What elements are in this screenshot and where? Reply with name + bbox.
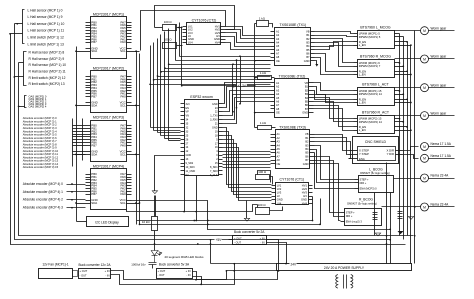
svg-text:Nema 23 4A: Nema 23 4A [431,203,450,207]
svg-text:B1: B1 [306,33,310,37]
svg-text:+ IN: + IN [260,237,265,241]
wire r100d right [270,207,283,211]
wire lbcog motor [394,178,421,180]
svg-text:ENA (mcp2) 3: ENA (mcp2) 3 [346,220,363,224]
svg-text:7_SD0: 7_SD0 [210,170,218,173]
wire r100c right [270,177,273,185]
junction [319,224,321,226]
wire 3v3 vertical [254,24,256,128]
wire buck5a out stub [229,239,233,241]
svg-text:20 segment RGB LED blocks: 20 segment RGB LED blocks [165,255,205,259]
wire coil drop L [374,193,376,236]
resistor 10 kohm [152,217,158,231]
connector fan-buck [73,271,78,277]
svg-text:- OUT: - OUT [80,273,87,277]
svg-text:6_CLK: 6_CLK [210,174,218,177]
wire r100c loop [258,171,271,183]
stepper controller CNC SHIELD [353,137,399,164]
motor M7 nema23 [421,174,429,182]
svg-text:A7: A7 [276,103,280,107]
svg-text:A1: A1 [277,132,281,136]
svg-text:PA0: PA0 [120,40,126,44]
svg-text:GND: GND [304,59,310,63]
wire right EN bus [399,34,401,236]
svg-text:PB7: PB7 [91,144,97,148]
svg-text:A2: A2 [276,85,280,89]
wire motor feed [395,87,421,89]
wire esp drop b [196,176,198,221]
svg-text:OE: OE [276,111,280,115]
svg-text:Nema 23 4A: Nema 23 4A [431,174,450,178]
svg-text:A5: A5 [276,96,280,100]
svg-text:A4: A4 [276,92,280,96]
ground below L_BCOG [375,233,380,236]
IC CT2 CYT1076 level shifter [187,23,221,45]
svg-text:GND: GND [301,198,307,202]
junction [75,154,77,156]
svg-text:Absolute encoder (MCP 4) 2: Absolute encoder (MCP 4) 2 [23,198,63,202]
svg-text:10_SD3: 10_SD3 [186,166,196,169]
motor M3 worm gear [421,84,429,92]
junction [207,220,209,222]
ground CT1 [244,218,249,221]
wire SCL bus [136,51,138,225]
svg-text:R Hall sensor (MCP 2) 9: R Hall sensor (MCP 2) 9 [29,57,65,61]
svg-text:Absolute encoder (MCP 4) 3: Absolute encoder (MCP 4) 3 [23,206,63,210]
svg-text:A6: A6 [277,151,281,155]
svg-text:M: M [423,205,426,209]
wire r100b to CT2 [177,45,183,47]
svg-text:+ OUT: + OUT [80,269,88,273]
ground below R_BCOG box [398,231,404,234]
svg-text:GND: GND [212,127,218,130]
svg-text:B5: B5 [305,151,309,155]
svg-text:HV4: HV4 [302,201,308,205]
junction [195,279,197,281]
svg-text:Absolute encoder (MCP 3) 15: Absolute encoder (MCP 3) 15 [23,165,59,169]
wire 1k TX2 loop [255,77,258,79]
svg-text:8_SD1: 8_SD1 [210,166,218,169]
svg-text:B5: B5 [305,100,309,104]
svg-text:+ IN: + IN [105,269,110,273]
svg-text:A5: A5 [276,44,280,48]
svg-text:Worm gear: Worm gear [431,83,448,87]
svg-text:- OUT: - OUT [158,273,165,277]
svg-text:B4: B4 [306,44,310,48]
resistor 1 kohm (TX2) [258,76,272,80]
wire 0v rail [227,270,277,272]
svg-text:SCL: SCL [120,201,126,205]
wire SDA to display [77,221,87,223]
svg-text:B2: B2 [306,37,310,41]
junction [195,220,197,222]
wire motor feed [395,115,421,117]
motor driver BTS7960 R_ACT [358,116,395,134]
svg-text:PB7: PB7 [91,192,97,196]
wire 1k TX1 loop [255,23,257,25]
svg-text:STEP +: STEP + [360,178,369,182]
wire 1k TX2 b [272,77,275,79]
wire cap down [152,265,154,269]
svg-text:+3.3V: +3.3V [238,84,247,88]
svg-text:+ OUT: + OUT [158,269,166,273]
resistor 100 ohm (top b) [163,43,177,49]
svg-text:HV4: HV4 [215,40,221,44]
IC U2 MCP23017 (MCP2) [91,71,127,113]
junction [210,239,212,241]
svg-text:Absolute encoder (MCP 4) 1: Absolute encoder (MCP 4) 1 [23,190,63,194]
svg-text:A3: A3 [276,88,280,92]
wire TX1 to BTS1/BTS2 [315,32,354,34]
wire psu feed 2 [390,193,392,264]
svg-text:B3: B3 [305,92,309,96]
wire 24v up [210,240,212,264]
svg-text:24V: 24V [291,262,298,266]
svg-text:DM542T (5v logic setting): DM542T (5v logic setting) [360,171,390,175]
svg-text:- IN: - IN [186,273,190,277]
svg-text:B1: B1 [305,136,309,140]
wire top loop 1 [155,6,235,30]
svg-text:CNC SHIELD: CNC SHIELD [365,140,387,144]
resistor 100 ohm (top a) [163,25,177,31]
display module I2C LED Display [87,217,129,227]
motor M1 worm gear [421,27,429,35]
svg-text:R Hall sensor (MCP 1) 10: R Hall sensor (MCP 1) 10 [29,63,67,67]
wire ESP32 to TX3 bundle [223,151,271,153]
svg-text:9_SD2: 9_SD2 [186,162,194,165]
svg-text:Worm gear: Worm gear [431,26,448,30]
junction [197,243,199,245]
wire motor feed [395,58,421,60]
svg-text:5V: 5V [186,174,189,177]
wire SDA stub [77,203,86,205]
wire TX1 gnd [315,61,317,65]
svg-text:BTS7960 L_MCOG: BTS7960 L_MCOG [360,25,391,29]
wire rail 229 [132,201,391,230]
svg-text:VN: VN [186,115,190,118]
wire bundle MCP/CYT to TX and ESP32 [150,46,152,128]
svg-text:Nema 17 1.5A: Nema 17 1.5A [431,154,452,158]
svg-text:PA0: PA0 [120,144,126,148]
wire rail 224 [140,199,321,225]
IC TX2 TXS0108E level shifter [275,79,309,118]
wire bracket G1 to bus a [15,23,23,25]
svg-text:SDA: SDA [91,49,97,53]
svg-text:LV3: LV3 [277,191,282,195]
motor M6 nema17 [421,154,429,162]
svg-text:I2C LED Display: I2C LED Display [95,220,119,224]
junction [278,270,280,272]
svg-text:ESP32 wroom: ESP32 wroom [190,95,212,99]
svg-text:A7: A7 [277,154,281,158]
junction [183,211,185,213]
svg-text:A8: A8 [276,107,280,111]
svg-text:OE: OE [276,59,280,63]
svg-text:L_EN: L_EN [359,101,366,105]
svg-text:VB: VB [305,132,309,136]
wire bracket L-sensor group [23,10,25,44]
svg-text:A3: A3 [277,140,281,144]
svg-text:Buck converter 5v 2A: Buck converter 5v 2A [234,230,265,234]
power +3.3V arrow [234,84,237,87]
svg-text:10 kΩ: 10 kΩ [142,220,150,224]
svg-text:Buck converter 12v 2A: Buck converter 12v 2A [78,263,111,267]
wire SDA stub [77,105,86,107]
wire SCL bus 2 [139,54,141,225]
svg-text:L_EN: L_EN [359,73,366,77]
wire bracket G2 to bus a [19,62,24,64]
svg-text:B7: B7 [305,107,309,111]
junction [135,105,137,107]
junction [254,77,256,79]
svg-text:MCP23017 (MCP2): MCP23017 (MCP2) [93,67,124,71]
svg-text:1 kΩ: 1 kΩ [260,71,267,75]
wire 1k TX1 b [269,24,273,28]
svg-text:24V 20 A POWER SUPPLY: 24V 20 A POWER SUPPLY [324,266,365,270]
svg-text:LV4: LV4 [277,201,282,205]
wire TX2 to BTS3/BTS4 [314,83,354,91]
svg-text:L Hall sensor (MCP 1) 0: L Hall sensor (MCP 1) 0 [28,8,63,12]
ground TX1 arrow [315,64,318,67]
wire TX3 to CNC/BCOG [315,135,349,151]
svg-text:LV1: LV1 [277,183,282,187]
junction [414,235,416,237]
junction [389,239,391,241]
svg-text:SCL: SCL [120,103,126,107]
svg-text:- IN: - IN [105,273,109,277]
wire SCL stub [132,105,140,107]
junction [226,270,228,272]
wire bundle to ESP32 drops [232,65,234,112]
wire left bus 1 [11,34,406,245]
wire esp drop a [184,176,186,212]
svg-text:B6: B6 [305,154,309,158]
transformer symbol [336,275,338,289]
svg-text:+5V: +5V [216,238,223,242]
svg-text:TXS0108E (TX1): TXS0108E (TX1) [279,23,306,27]
svg-text:A6: A6 [276,100,280,104]
svg-text:VB: VB [305,81,309,85]
svg-text:11_CMD: 11_CMD [186,170,196,173]
svg-text:LV: LV [277,194,280,198]
svg-text:CYT1076 (CT2): CYT1076 (CT2) [192,19,217,23]
wire psu feed 1 [386,163,388,264]
wire rail 220 [137,197,313,221]
svg-text:SCL: SCL [120,49,126,53]
svg-text:A8: A8 [276,55,280,59]
svg-text:Y STEP: Y STEP [359,152,369,156]
svg-text:A5: A5 [277,147,281,151]
svg-text:1000uf 16v: 1000uf 16v [131,262,146,266]
svg-text:MCP23017 (MCP1): MCP23017 (MCP1) [93,12,124,16]
junction [178,27,180,29]
IC U3 MCP23017 (MCP3) [91,121,127,162]
svg-text:M: M [423,86,426,90]
wire SDA stub [77,51,86,53]
junction [389,228,391,230]
svg-text:R_BCOG: R_BCOG [359,198,373,202]
wire SCL stub [132,154,140,156]
motor driver BTS7960 L_ACT [358,88,395,106]
svg-text:RPWM (MCP1) 7: RPWM (MCP1) 7 [359,64,381,68]
svg-text:DIR +: DIR + [346,214,353,218]
svg-text:A4: A4 [276,41,280,45]
wire buck12 +in [111,271,278,280]
svg-text:SDA: SDA [91,152,97,156]
IC TX1 TXS0108E level shifter [275,28,311,66]
svg-text:- OUT: - OUT [234,241,241,245]
svg-text:LV4: LV4 [188,40,193,44]
junction [386,243,388,245]
junction [254,85,256,87]
IC TX3 TXS0108E level shifter [276,130,310,169]
wire gnd to 10k b [155,196,157,217]
wire encoder MCP4 harness [67,184,86,186]
svg-text:PB7: PB7 [91,40,97,44]
wire SCL stub [132,203,140,205]
power +5V label [215,238,222,242]
svg-text:Buck converter 5v 3A: Buck converter 5v 3A [159,263,190,267]
label 24V [290,262,297,266]
svg-text:PA0: PA0 [120,192,126,196]
svg-text:+ OUT: + OUT [234,237,242,241]
svg-text:100 Ω: 100 Ω [164,20,173,24]
svg-text:Nema 17 1.5A: Nema 17 1.5A [431,142,452,146]
junction [233,270,235,272]
svg-text:L Hall sensor (MCP 1) 10: L Hall sensor (MCP 1) 10 [28,22,65,26]
wire rbcog motor [382,206,421,208]
wire encoder MCP3 harness [73,125,86,127]
junction [195,211,197,213]
svg-text:M: M [423,57,426,61]
svg-text:A8: A8 [277,158,281,162]
svg-text:HV2: HV2 [302,187,308,191]
wire top loop 2 [141,11,226,51]
svg-text:VB: VB [306,30,310,34]
junction [210,243,212,245]
svg-text:Worm gear: Worm gear [431,111,448,115]
svg-text:L_EN: L_EN [359,128,366,132]
wire r100a left [155,27,163,29]
wire ESP32 gnd loop [155,156,181,191]
junction [386,235,388,237]
svg-text:M: M [423,157,426,161]
wire TX1 OE feed [255,60,271,62]
wire gnd to 10k a [154,196,156,217]
wire bracket G2 to bus b [15,76,24,78]
wire buck5b +in [193,271,227,280]
junction [75,105,77,107]
svg-text:HV3: HV3 [302,191,308,195]
svg-text:M: M [423,29,426,33]
wire r100d loop [127,205,258,212]
svg-text:R Hall sensor (MCP 2) 11: R Hall sensor (MCP 2) 11 [29,70,66,74]
svg-text:HV: HV [303,194,307,198]
junction [181,85,183,87]
wire 1k TX3 b [272,127,276,129]
junction [285,263,287,265]
wire buck5b -in [193,277,202,285]
wire bracket OAS group [25,96,27,108]
junction [233,263,235,265]
wire cnc motor1 [403,147,419,151]
svg-text:RPWM (MCP1) 14: RPWM (MCP1) 14 [359,92,383,96]
svg-text:L Hall sensor (MCP 1) 9: L Hall sensor (MCP 1) 9 [28,15,63,19]
wire buck5a +in [267,240,279,271]
resistor 100 ohm (CT1 b) [256,208,270,215]
svg-text:A1: A1 [276,81,280,85]
wire motor feed [395,30,421,32]
svg-text:DIR +: DIR + [360,181,367,185]
junction [207,224,209,226]
svg-text:Absolute encoder (MCP 4) 0: Absolute encoder (MCP 4) 0 [23,182,63,186]
resistor 100 ohm (CT1 a) [256,175,270,180]
svg-text:VP: VP [186,111,190,114]
svg-text:B2: B2 [305,140,309,144]
junction [154,243,156,245]
junction [139,224,141,226]
LED RGB indicator [151,251,158,256]
svg-text:L_BCOG: L_BCOG [369,167,383,171]
IC U4 MCP23017 (MCP4) [91,169,127,210]
svg-text:PA0: PA0 [120,95,126,99]
svg-text:B1: B1 [305,85,309,89]
svg-text:GND: GND [303,162,309,166]
IC U5 ESP32 wroom module [185,100,219,176]
svg-text:L Hall sensor (MCP 1) 11: L Hall sensor (MCP 1) 11 [28,29,65,33]
wire SDA stub [77,154,86,156]
wire buck5a -in [267,243,287,264]
svg-text:GND: GND [277,198,283,202]
svg-text:ENA: ENA [359,157,365,161]
svg-text:OAS (MCP2) 4: OAS (MCP2) 4 [29,105,47,109]
wire buck12 -in [111,264,235,285]
junction [414,206,416,208]
wire 10k bottom [154,231,156,251]
junction [135,202,137,204]
wire CT2 LV1 drop [181,27,183,86]
svg-text:A7: A7 [276,52,280,56]
svg-text:A3: A3 [276,37,280,41]
motor M8 nema23 [421,203,429,211]
wire ESP32 to TX2 bundle [223,83,271,104]
motor M4 worm gear [421,112,429,120]
wire CT1 gnd [246,201,248,219]
svg-text:PB7: PB7 [91,95,97,99]
svg-text:R limit switch (MCP 2) 12: R limit switch (MCP 2) 12 [29,76,66,80]
resistor 1 kohm (TX1) [257,21,269,27]
svg-text:B6: B6 [306,52,310,56]
svg-text:EN: EN [186,107,190,110]
wire ESP32 to CT1 bundle [223,128,272,185]
ground ESP32 [152,191,157,194]
capacitor 1000uF 16v [149,262,157,264]
junction [312,220,314,222]
svg-text:HV1: HV1 [302,183,308,187]
power +3.3V label [237,84,247,88]
svg-text:A4: A4 [277,143,281,147]
wire SDA bus [76,47,78,222]
svg-text:SCL: SCL [120,152,126,156]
svg-text:B7: B7 [306,55,310,59]
junction [135,154,137,156]
svg-text:OE: OE [277,162,281,166]
svg-text:A1: A1 [276,30,280,34]
svg-text:DM542T (5v logic setting): DM542T (5v logic setting) [347,202,377,206]
resistor 1 kohm (TX3) [258,126,272,130]
wire BTS EN stubs [395,41,408,43]
wire bracket R-sensor group [24,52,27,86]
